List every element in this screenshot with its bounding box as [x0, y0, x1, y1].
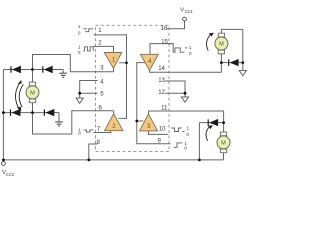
- logic level labels pin 1: [78, 24, 81, 37]
- svg-text:6: 6: [99, 105, 103, 111]
- node motor M3 top: [222, 121, 225, 124]
- wire bottom diode row: [3, 112, 59, 114]
- wire pin 3 to driver 1 output: [113, 68, 115, 72]
- wire left supply rail: [2, 70, 4, 160]
- ground (pins 12,13): [181, 97, 188, 102]
- svg-text:CC2: CC2: [6, 172, 15, 177]
- wire enable stub driver 3: [137, 120, 144, 122]
- wire pin 13 ground: [165, 81, 185, 93]
- wire pin 2 to driver 1 input: [94, 46, 114, 52]
- wire top diode row: [3, 69, 63, 71]
- node motor M1 bottom: [31, 111, 34, 114]
- svg-text:13: 13: [158, 78, 165, 84]
- rotation arrow motor M2: [207, 33, 214, 51]
- svg-text:1: 1: [78, 24, 81, 30]
- wire pin 9 enable line: [137, 63, 171, 144]
- svg-text:2: 2: [98, 41, 102, 47]
- wire enable stub driver 1: [119, 62, 126, 64]
- node diode return rail: [198, 159, 201, 162]
- svg-text:4: 4: [148, 59, 152, 65]
- logic level labels pin 7: [78, 127, 81, 136]
- input waveform pin 1: [84, 29, 94, 32]
- wire motor M3 bottom lead: [223, 153, 225, 160]
- wire node A to pin 3: [33, 55, 114, 72]
- wire pin 16 to Vcc1: [167, 21, 185, 29]
- pin number labels: [97, 26, 169, 146]
- svg-text:0: 0: [189, 51, 192, 57]
- logic level labels pin 15: [189, 45, 192, 57]
- svg-text:11: 11: [161, 105, 168, 111]
- IC U1 dashed package outline: [96, 25, 170, 151]
- wire pin 4 ground: [80, 81, 98, 94]
- svg-text:1: 1: [98, 28, 102, 34]
- ground (motor M2): [239, 70, 246, 75]
- svg-text:3: 3: [100, 65, 104, 71]
- node pins 12,13 ground: [184, 92, 187, 95]
- svg-text:M: M: [30, 91, 35, 97]
- rotation arrow motor M1: [15, 80, 23, 112]
- svg-text:5: 5: [100, 92, 104, 98]
- node motor M1 top: [31, 68, 34, 71]
- wire pin 15 to driver 4 input: [150, 44, 173, 55]
- ground (top diode row): [59, 73, 67, 77]
- Vcc2 label: [2, 170, 15, 177]
- svg-text:2: 2: [112, 124, 116, 130]
- input waveform pin 10: [171, 128, 184, 132]
- svg-text:0: 0: [78, 50, 81, 56]
- input waveform pin 2: [83, 47, 93, 51]
- svg-text:0: 0: [184, 146, 187, 152]
- svg-text:7: 7: [97, 127, 101, 133]
- wire motor M3 top lead: [223, 123, 225, 133]
- driver U1c triangle 3: [140, 114, 158, 131]
- wire ground stem pins 4,5: [79, 93, 81, 98]
- svg-text:V: V: [180, 7, 184, 13]
- logic level labels pin 9: [184, 141, 187, 152]
- diode D1: [11, 66, 21, 73]
- wire diode row motor M3: [199, 122, 223, 124]
- logic level labels pin 2: [78, 44, 81, 56]
- wire motor M1 top lead: [32, 70, 34, 83]
- motor M3: [217, 132, 230, 153]
- svg-text:16: 16: [161, 26, 168, 32]
- svg-text:0: 0: [78, 31, 81, 37]
- node motor M2 bottom: [220, 61, 223, 64]
- wire node B to pin 6: [33, 111, 114, 134]
- wire motor M2 bottom lead: [220, 54, 222, 63]
- wire ground stub top row: [62, 70, 64, 74]
- svg-text:1: 1: [112, 57, 116, 63]
- svg-text:CC1: CC1: [185, 9, 194, 14]
- wire motor M1 bottom lead: [32, 103, 34, 113]
- svg-text:12: 12: [158, 90, 165, 96]
- wire pin 15 stub to waveform: [168, 44, 173, 53]
- wire pin 12 ground: [165, 92, 185, 94]
- wire pin 5 ground: [80, 92, 98, 94]
- node pins 4,5 ground: [78, 92, 81, 95]
- svg-text:10: 10: [159, 127, 166, 133]
- wire ground stem pins 12,13: [184, 93, 186, 96]
- diode D4: [44, 109, 54, 116]
- diode D2: [43, 66, 53, 73]
- ground (pins 4,5): [76, 98, 83, 103]
- wire ground stem motor M2: [242, 63, 244, 71]
- driver U1d triangle 4: [141, 54, 159, 70]
- wire diode row motor M2: [221, 62, 242, 64]
- wire pin 10 to driver 3 input: [149, 131, 169, 134]
- motor M2: [215, 33, 228, 54]
- node motor M2 ground: [241, 61, 244, 64]
- input waveform pin 15: [173, 48, 187, 52]
- motor M1: [26, 82, 39, 103]
- node pin 8 rail: [87, 159, 90, 162]
- input waveform pin 9: [174, 143, 183, 147]
- node junction dots: [2, 61, 244, 161]
- diode D6: [208, 119, 218, 126]
- node left rail bottom row: [2, 111, 5, 114]
- svg-text:M: M: [219, 42, 224, 48]
- svg-text:9: 9: [158, 138, 162, 144]
- svg-text:15: 15: [161, 39, 168, 45]
- Vcc1 label: [180, 7, 193, 14]
- svg-text:1: 1: [78, 44, 81, 50]
- wire Vcc2 bottom rail: [3, 159, 223, 161]
- svg-text:1: 1: [186, 126, 189, 132]
- svg-text:1: 1: [189, 45, 192, 51]
- svg-text:14: 14: [158, 66, 165, 72]
- Vcc1 terminal: [183, 17, 187, 21]
- rotation arrow motor M3: [206, 125, 213, 141]
- logic level labels pin 10: [186, 126, 189, 138]
- wire driver 2 output to pin 6: [113, 111, 115, 114]
- svg-text:M: M: [221, 141, 226, 147]
- wire motor M2 top loop: [221, 29, 242, 62]
- wire driver 3 output pin 11 to motor M3: [149, 111, 224, 123]
- Vcc2 terminal: [2, 162, 6, 166]
- svg-text:4: 4: [100, 80, 104, 86]
- diode D3: [11, 109, 21, 116]
- svg-text:0: 0: [186, 132, 189, 138]
- node enable 1,2: [125, 61, 128, 64]
- driver U1a triangle 1: [104, 53, 121, 69]
- wire pin 1 enable line: [94, 35, 127, 119]
- node Vcc2: [2, 159, 5, 162]
- diode D5: [229, 59, 239, 66]
- input waveform pin 7: [84, 130, 94, 132]
- wire pin 8 to Vcc2 rail: [89, 144, 98, 160]
- wire driver 4 output to pin 14 and motor M2: [150, 63, 222, 73]
- driver U1b triangle 2: [105, 114, 124, 131]
- wire diode return to Vcc2 rail: [198, 123, 200, 160]
- wire ground stub bottom row: [58, 113, 60, 122]
- wire pin 7 to driver 2 input: [94, 131, 111, 133]
- svg-text:0: 0: [78, 131, 81, 136]
- ground (bottom diode row): [55, 122, 63, 126]
- svg-text:8: 8: [97, 140, 101, 146]
- node enable 3,4: [135, 120, 138, 123]
- svg-text:3: 3: [147, 124, 151, 130]
